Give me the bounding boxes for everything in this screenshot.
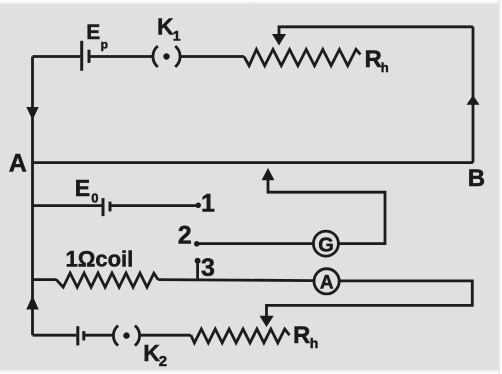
wire terminal 2 to galvanometer xyxy=(197,242,314,245)
wire from Ep to key K1 xyxy=(89,55,153,58)
rheostat Rh (bottom) zigzag xyxy=(191,329,290,343)
terminal 1 dot xyxy=(195,203,201,209)
svg-text:K: K xyxy=(157,14,174,40)
wire potentiometer A-B xyxy=(33,161,474,164)
label K2 xyxy=(143,340,167,370)
wire coil to ammeter xyxy=(158,280,314,281)
battery bottom long plate xyxy=(76,326,79,345)
arrow jockey at AB wire xyxy=(262,168,275,180)
svg-text:E: E xyxy=(86,21,100,44)
svg-text:1: 1 xyxy=(201,190,215,218)
svg-text:3: 3 xyxy=(201,254,215,282)
wire battery to key K2 xyxy=(85,334,114,337)
resistor 1 ohm coil zigzag xyxy=(56,273,158,287)
svg-text:1: 1 xyxy=(173,27,181,43)
arrow up on right vertical xyxy=(467,95,480,105)
svg-text:K: K xyxy=(143,340,160,366)
key K1 arcs xyxy=(153,46,180,67)
wire E0 to terminal 1 xyxy=(112,204,197,207)
label Rh top xyxy=(365,46,389,75)
wire K2 to rheostat Rh bottom xyxy=(139,334,191,337)
wire ammeter to bottom slider xyxy=(267,281,473,317)
svg-text:A: A xyxy=(9,150,27,178)
label K1 xyxy=(157,14,181,44)
svg-text:R: R xyxy=(293,322,310,349)
key K2 arcs xyxy=(113,326,139,346)
label Ep xyxy=(86,21,108,51)
arrow slider bottom rheostat xyxy=(260,316,274,327)
battery Ep short plate xyxy=(88,50,91,63)
wire bottom from bus to battery xyxy=(33,334,77,337)
wire coil branch from bus xyxy=(33,278,57,281)
label Rh bottom xyxy=(293,322,318,351)
wire right vertical to B xyxy=(472,27,475,163)
battery bottom short plate xyxy=(82,331,85,340)
wire left vertical bus xyxy=(31,57,34,336)
ammeter A circle xyxy=(314,269,339,294)
wire slider feed top xyxy=(279,27,473,35)
rheostat Rh (top) zigzag xyxy=(244,49,361,65)
galvanometer G circle xyxy=(313,231,338,256)
wire top from A-bus to battery Ep xyxy=(33,55,81,58)
battery E0 short plate xyxy=(109,202,112,212)
svg-text:A: A xyxy=(320,273,334,294)
svg-text:1Ωcoil: 1Ωcoil xyxy=(66,247,134,272)
terminal 3 dot xyxy=(195,258,201,264)
wire from K1 to rheostat Rh top xyxy=(180,55,244,58)
arrow down on left bus xyxy=(26,107,38,120)
wire E0 branch xyxy=(33,204,102,207)
svg-text:0: 0 xyxy=(91,191,98,206)
svg-text:G: G xyxy=(318,235,334,257)
svg-text:2: 2 xyxy=(159,353,167,370)
svg-text:B: B xyxy=(468,165,485,192)
svg-text:h: h xyxy=(310,335,319,351)
svg-text:R: R xyxy=(365,46,382,73)
wire jockey to galvanometer xyxy=(268,179,385,244)
svg-text:h: h xyxy=(381,60,389,75)
arrow up on left bus (bottom) xyxy=(26,296,38,310)
terminal 3 post xyxy=(196,262,199,281)
key K1 dot xyxy=(163,53,169,59)
key K2 dot xyxy=(123,332,129,338)
terminal 2 dot xyxy=(194,241,200,247)
battery Ep long plate xyxy=(80,41,83,71)
battery E0 long plate xyxy=(102,198,105,216)
svg-text:E: E xyxy=(75,175,90,201)
arrow slider top rheostat xyxy=(272,34,286,46)
svg-text:p: p xyxy=(101,37,108,51)
svg-text:2: 2 xyxy=(178,221,192,249)
label E0 xyxy=(75,175,99,206)
